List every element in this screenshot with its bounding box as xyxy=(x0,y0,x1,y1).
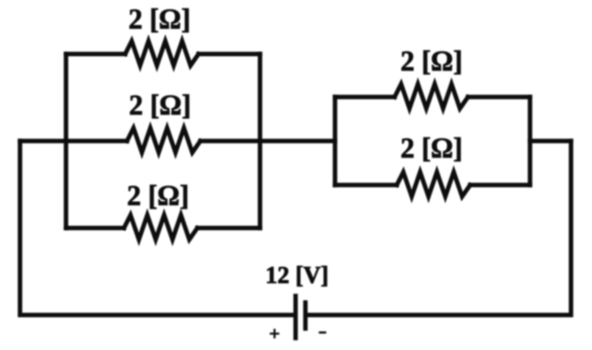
svg-text:2 [Ω]: 2 [Ω] xyxy=(400,47,462,78)
svg-text:2 [Ω]: 2 [Ω] xyxy=(129,91,191,122)
svg-text:2 [Ω]: 2 [Ω] xyxy=(128,5,190,36)
svg-text:+: + xyxy=(269,324,280,345)
svg-text:2 [Ω]: 2 [Ω] xyxy=(127,181,189,212)
svg-text:12 [V]: 12 [V] xyxy=(265,263,328,289)
svg-text:2 [Ω]: 2 [Ω] xyxy=(400,134,462,165)
